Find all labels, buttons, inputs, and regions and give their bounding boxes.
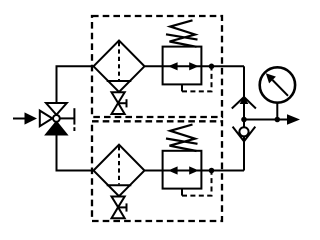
regulator R2 right arrowhead bbox=[189, 166, 199, 174]
node gauge junction bbox=[275, 117, 281, 123]
node output junction bbox=[241, 117, 247, 123]
filter F1 diamond bbox=[94, 41, 145, 93]
wire top main line filter to corner bbox=[145, 65, 244, 67]
shut-off valve V1 vent tick (dashed) bbox=[73, 127, 75, 131]
regulator R1 spring bbox=[170, 20, 197, 47]
wire output line bbox=[244, 119, 288, 121]
regulator R2 body bbox=[163, 151, 202, 189]
check valve CV2 ball bbox=[239, 127, 248, 136]
enclosure dashed box top unit bbox=[92, 16, 222, 117]
shut-off valve V1 right blocked port bbox=[60, 117, 75, 119]
check valve CV1 flow arrow (filled) bbox=[240, 96, 249, 104]
enclosure dashed box bottom unit bbox=[92, 121, 222, 221]
regulator R1 left arrowhead bbox=[168, 62, 178, 70]
filter F2 diamond bbox=[94, 145, 145, 197]
wire input line bbox=[13, 118, 26, 120]
node pilot junction bottom bbox=[209, 168, 215, 174]
wire right vertical connecting line bbox=[243, 66, 245, 170]
input flow arrow bbox=[25, 112, 38, 124]
regulator R2 spring bbox=[170, 125, 197, 152]
filter F1 element dashed line bbox=[118, 42, 120, 80]
node pilot junction top bbox=[209, 64, 215, 70]
shut-off valve V1 left port triangle bbox=[40, 111, 53, 127]
drain valve F1 T-handle bbox=[118, 102, 126, 104]
drain valve F2 upper triangle bbox=[112, 197, 125, 208]
check valve CV2 seat bbox=[233, 127, 256, 142]
output flow arrow bbox=[287, 114, 300, 125]
regulator R2 pilot line bbox=[181, 189, 183, 196]
regulator R1 right arrowhead bbox=[189, 62, 199, 70]
regulator R1 pilot line bbox=[181, 84, 183, 91]
filter F1 sump line bbox=[107, 80, 132, 82]
filter F2 element dashed line bbox=[118, 146, 120, 184]
drain valve F2 T-handle bbox=[118, 206, 126, 208]
shut-off valve V1 bottom exhaust triangle (filled) bbox=[46, 122, 66, 135]
shut-off valve V1 top port triangle bbox=[46, 103, 67, 115]
drain valve F1 lower triangle bbox=[112, 103, 125, 114]
pressure gauge G1 needle bbox=[273, 80, 289, 96]
regulator R2 left arrowhead bbox=[168, 166, 178, 174]
drain valve F2 lower triangle bbox=[112, 207, 125, 218]
wire riser valve to top branch bbox=[57, 66, 94, 103]
pressure gauge G1 stem bbox=[276, 102, 278, 120]
wire bottom main line filter to corner bbox=[145, 170, 244, 172]
wire riser valve to bottom branch bbox=[57, 135, 94, 171]
shut-off valve V1 ball circle bbox=[53, 115, 60, 122]
regulator R1 body bbox=[163, 47, 202, 85]
pressure gauge G1 body bbox=[260, 67, 295, 102]
check valve CV1 seat chevron bbox=[232, 97, 256, 109]
filter F2 sump line bbox=[107, 184, 132, 186]
drain valve F1 upper triangle bbox=[112, 92, 125, 103]
